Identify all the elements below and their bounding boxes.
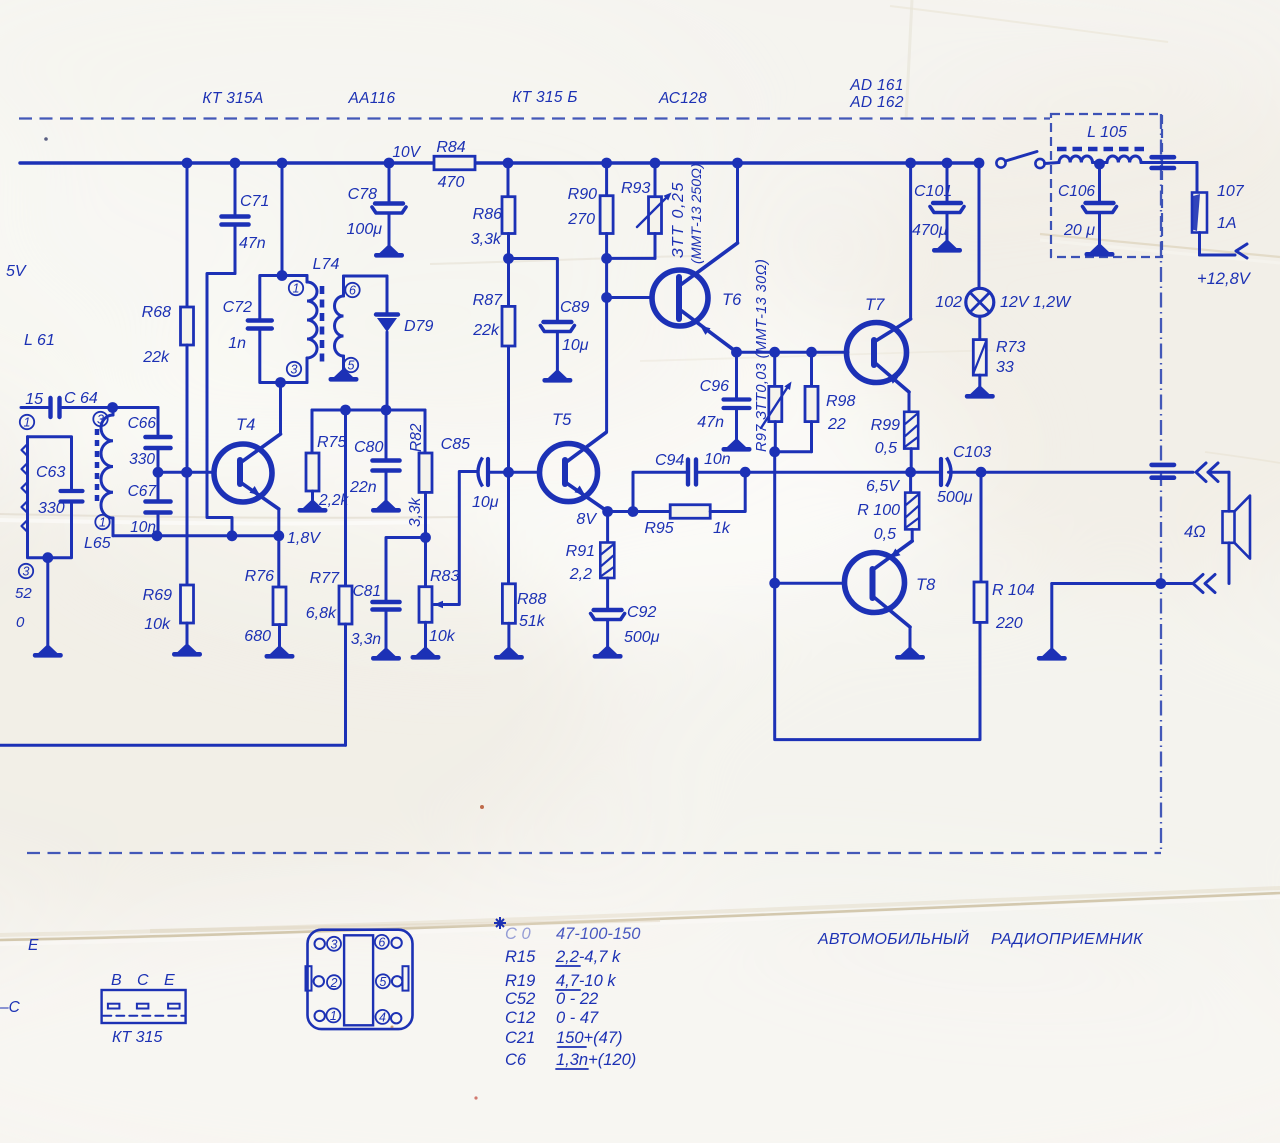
svg-text:0,5: 0,5: [874, 526, 896, 543]
svg-text:+12,8V: +12,8V: [1197, 270, 1252, 288]
svg-text:С6: С6: [505, 1051, 527, 1069]
svg-text:3: 3: [97, 413, 104, 427]
svg-text:Т7: Т7: [865, 296, 885, 314]
svg-text:1n: 1n: [228, 335, 246, 352]
svg-text:270: 270: [567, 211, 595, 228]
svg-text:C72: C72: [223, 299, 252, 316]
svg-text:КТ 315А: КТ 315А: [202, 90, 263, 107]
svg-text:52: 52: [15, 585, 32, 602]
svg-text:0 - 47: 0 - 47: [556, 1009, 599, 1027]
svg-text:3,3n: 3,3n: [351, 631, 381, 648]
svg-text:51k: 51k: [519, 613, 546, 630]
svg-text:0,5: 0,5: [875, 440, 897, 457]
svg-text:C67: C67: [128, 483, 158, 500]
svg-text:1,3n+(120): 1,3n+(120): [556, 1051, 636, 1069]
svg-text:C94: C94: [655, 452, 684, 469]
svg-text:R19: R19: [505, 972, 535, 990]
svg-text:10k: 10k: [429, 628, 456, 645]
svg-text:3,3k: 3,3k: [471, 231, 502, 248]
svg-text:33: 33: [996, 359, 1014, 376]
svg-text:C81: C81: [353, 583, 381, 600]
svg-text:C 64: C 64: [64, 390, 98, 407]
svg-text:R77: R77: [310, 570, 340, 587]
svg-text:47n: 47n: [239, 235, 266, 252]
svg-text:R73: R73: [996, 339, 1025, 356]
svg-text:5V: 5V: [6, 263, 27, 280]
svg-text:R93: R93: [621, 180, 650, 197]
svg-text:500μ: 500μ: [937, 489, 973, 506]
svg-text:5: 5: [379, 975, 386, 989]
svg-text:10V: 10V: [392, 144, 421, 161]
svg-text:R90: R90: [568, 186, 597, 203]
svg-text:С12: С12: [505, 1009, 535, 1027]
svg-text:12V 1,2W: 12V 1,2W: [1000, 294, 1072, 311]
svg-text:C103: C103: [953, 444, 991, 461]
svg-text:C: C: [137, 972, 149, 989]
svg-text:22: 22: [827, 416, 846, 433]
svg-text:4,7-10 k: 4,7-10 k: [556, 972, 616, 990]
svg-text:T5: T5: [552, 411, 572, 429]
svg-text:2,2-4,7 k: 2,2-4,7 k: [555, 948, 621, 966]
svg-text:220: 220: [995, 615, 1023, 632]
svg-text:R75: R75: [317, 434, 346, 451]
svg-text:АВТОМОБИЛЬНЫЙ: АВТОМОБИЛЬНЫЙ: [817, 929, 969, 948]
svg-text:C78: C78: [348, 186, 377, 203]
svg-text:1: 1: [99, 516, 106, 530]
svg-text:C101: C101: [914, 183, 952, 200]
svg-text:R87: R87: [473, 292, 503, 309]
svg-text:6: 6: [378, 936, 385, 950]
svg-text:КТ 315: КТ 315: [112, 1029, 162, 1046]
svg-text:‒C: ‒C: [0, 999, 21, 1016]
svg-text:22k: 22k: [472, 322, 500, 339]
svg-text:20 μ: 20 μ: [1063, 222, 1095, 239]
svg-text:R84: R84: [436, 139, 465, 156]
svg-text:C92: C92: [627, 604, 656, 621]
svg-text:C71: C71: [240, 193, 269, 210]
svg-text:C96: C96: [700, 378, 729, 395]
svg-text:47n: 47n: [697, 414, 724, 431]
svg-text:1A: 1A: [1217, 215, 1237, 232]
svg-text:4Ω: 4Ω: [1184, 523, 1206, 541]
svg-text:8V: 8V: [576, 511, 597, 528]
svg-text:1,8V: 1,8V: [287, 530, 321, 547]
svg-text:22n: 22n: [349, 479, 377, 496]
svg-text:D79: D79: [404, 318, 433, 335]
svg-text:(ММТ-13 250Ω): (ММТ-13 250Ω): [689, 163, 705, 264]
svg-text:R83: R83: [430, 568, 459, 585]
svg-text:L74: L74: [313, 256, 340, 273]
svg-text:6,8k: 6,8k: [306, 605, 337, 622]
svg-text:R95: R95: [644, 520, 673, 537]
svg-text:AD 161: AD 161: [849, 77, 904, 94]
svg-text:R 100: R 100: [857, 502, 900, 519]
svg-text:R99: R99: [871, 417, 900, 434]
svg-text:C89: C89: [560, 299, 589, 316]
svg-text:R86: R86: [473, 206, 502, 223]
svg-text:2: 2: [330, 976, 338, 990]
svg-text:10n: 10n: [704, 451, 731, 468]
svg-text:R68: R68: [142, 304, 171, 321]
svg-text:150+(47): 150+(47): [556, 1029, 623, 1047]
svg-text:2,2: 2,2: [569, 566, 592, 583]
svg-text:L 105: L 105: [1087, 124, 1127, 141]
svg-text:102: 102: [935, 294, 962, 311]
svg-text:15: 15: [25, 391, 43, 408]
svg-text:B: B: [111, 972, 122, 989]
svg-text:ЗТТ 0,25: ЗТТ 0,25: [670, 181, 687, 258]
svg-text:R97 ЗТТ0,03 (ММТ-13 30Ω): R97 ЗТТ0,03 (ММТ-13 30Ω): [754, 259, 770, 452]
svg-text:4: 4: [379, 1011, 386, 1025]
svg-text:R91: R91: [566, 543, 595, 560]
svg-text:3: 3: [331, 937, 338, 951]
svg-text:R98: R98: [826, 393, 855, 410]
svg-text:АА116: АА116: [348, 90, 396, 107]
svg-text:470μ: 470μ: [912, 222, 948, 239]
svg-text:R76: R76: [245, 568, 274, 585]
svg-text:КТ 315 Б: КТ 315 Б: [512, 89, 578, 106]
svg-text:3: 3: [291, 363, 298, 377]
svg-text:C106: C106: [1058, 183, 1095, 200]
svg-text:E: E: [28, 937, 39, 954]
svg-text:C63: C63: [36, 464, 65, 481]
svg-text:10μ: 10μ: [562, 337, 589, 354]
svg-text:С21: С21: [505, 1029, 535, 1047]
svg-text:100μ: 100μ: [347, 221, 383, 238]
svg-text:C66: C66: [128, 415, 157, 432]
svg-text:10μ: 10μ: [472, 494, 499, 511]
svg-text:470: 470: [438, 174, 465, 191]
svg-text:330: 330: [38, 500, 65, 517]
svg-text:22k: 22k: [142, 349, 170, 366]
svg-text:6,5V: 6,5V: [866, 478, 900, 495]
svg-text:R82: R82: [408, 423, 425, 452]
svg-text:АС128: АС128: [658, 90, 707, 107]
svg-text:C85: C85: [441, 436, 470, 453]
svg-text:680: 680: [244, 628, 271, 645]
svg-text:6: 6: [349, 284, 356, 298]
svg-text:Т8: Т8: [916, 576, 936, 594]
svg-text:R69: R69: [143, 587, 172, 604]
svg-text:1k: 1k: [713, 520, 731, 537]
svg-text:0 - 22: 0 - 22: [556, 990, 598, 1008]
svg-text:R88: R88: [517, 591, 546, 608]
svg-text:1: 1: [293, 282, 300, 296]
svg-text:10n: 10n: [130, 519, 156, 536]
svg-text:С52: С52: [505, 990, 535, 1008]
svg-text:L65: L65: [84, 535, 111, 552]
svg-text:330: 330: [129, 451, 155, 468]
svg-text:1: 1: [330, 1009, 337, 1023]
svg-text:T4: T4: [236, 416, 255, 434]
svg-text:Т6: Т6: [722, 291, 742, 309]
svg-text:10k: 10k: [144, 616, 171, 633]
svg-text:107: 107: [1217, 183, 1245, 200]
svg-text:3: 3: [23, 565, 30, 579]
svg-text:47-100-150: 47-100-150: [556, 925, 641, 943]
svg-text:C 0: C 0: [505, 925, 532, 943]
svg-text:1: 1: [24, 416, 31, 430]
svg-text:AD 162: AD 162: [849, 94, 904, 111]
svg-text:0: 0: [16, 614, 25, 631]
svg-text:R15: R15: [505, 948, 536, 966]
svg-text:C80: C80: [354, 439, 383, 456]
svg-text:500μ: 500μ: [624, 629, 660, 646]
svg-text:РАДИОПРИЕМНИК: РАДИОПРИЕМНИК: [991, 931, 1144, 948]
svg-text:R 104: R 104: [992, 582, 1035, 599]
svg-text:L 61: L 61: [24, 332, 55, 349]
svg-text:E: E: [164, 972, 175, 989]
svg-text:5: 5: [348, 359, 355, 373]
svg-text:3,3k: 3,3k: [407, 496, 424, 527]
